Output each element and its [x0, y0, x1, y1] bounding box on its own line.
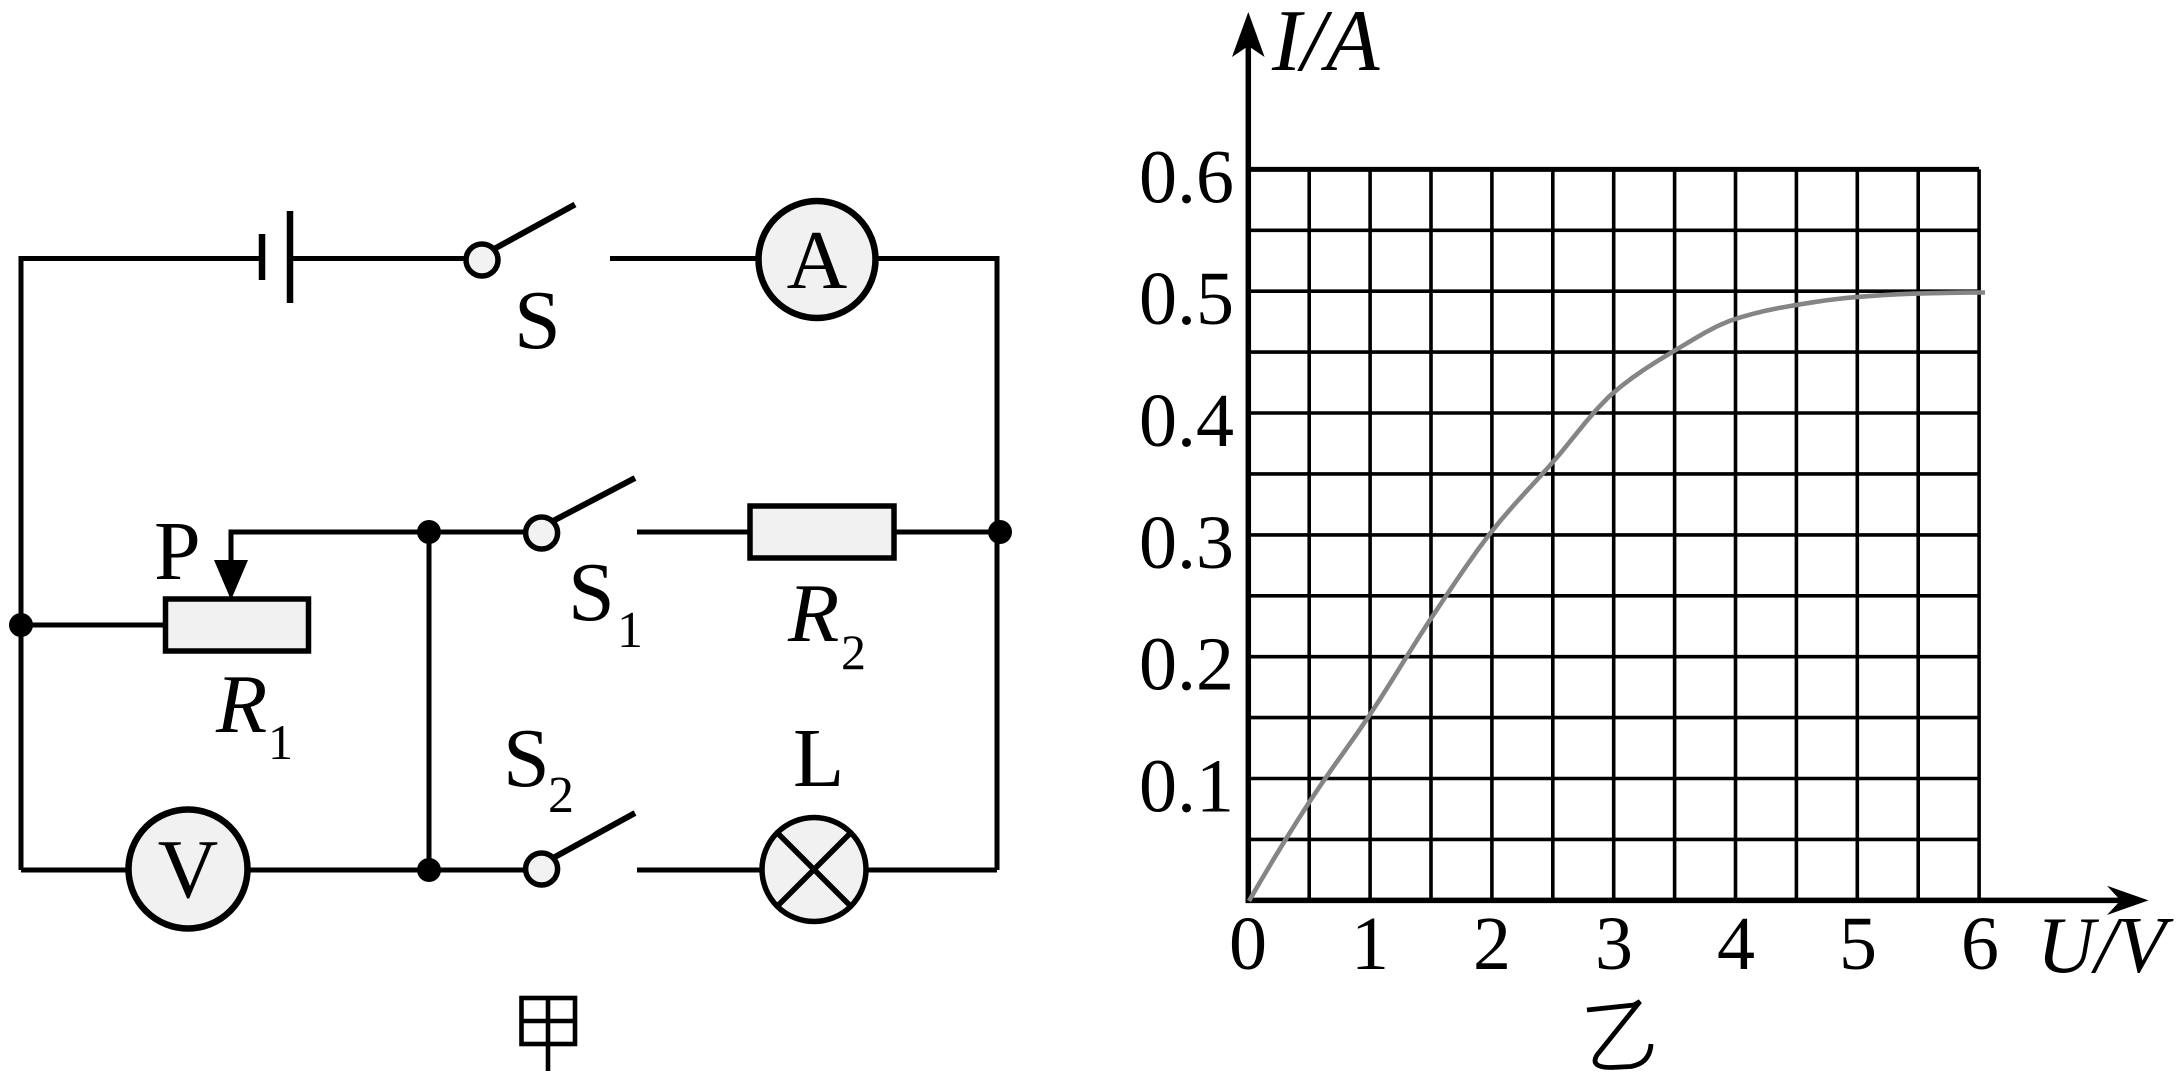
- switch S: [466, 205, 575, 277]
- node: right junction: [988, 520, 1012, 544]
- node: middle bottom junction: [417, 858, 441, 882]
- wire: resistor R2 to right junction: [894, 530, 997, 535]
- label S2: [503, 712, 574, 824]
- wire: junction to switch S1: [429, 530, 526, 535]
- x axis arrowhead: [2107, 886, 2149, 915]
- resistor R2 body: [750, 506, 894, 558]
- svg-text:R: R: [787, 567, 839, 660]
- svg-text:I/A: I/A: [1271, 0, 1381, 90]
- wire: switch S1 to resistor R2: [637, 530, 751, 535]
- y axis: [1246, 45, 1252, 903]
- battery: [262, 211, 290, 303]
- svg-text:S: S: [568, 546, 615, 639]
- x axis: [1246, 898, 2125, 904]
- svg-text:V: V: [158, 823, 219, 916]
- svg-text:L: L: [793, 712, 844, 805]
- wire: left wire to rheostat R1: [21, 623, 166, 628]
- I-U curve: [1249, 293, 1985, 902]
- lamp L: [762, 818, 866, 922]
- svg-text:A: A: [787, 214, 848, 307]
- svg-text:1: 1: [617, 602, 643, 659]
- svg-text:2: 2: [841, 624, 866, 680]
- svg-text:0.5: 0.5: [1139, 257, 1234, 341]
- svg-text:U/V: U/V: [2037, 902, 2174, 990]
- graph grid: [1248, 169, 1979, 900]
- wire: battery to switch S: [293, 256, 467, 261]
- node: middle top junction: [417, 520, 441, 544]
- wire: ammeter to top-right corner, down right side: [875, 259, 997, 871]
- wire: wiper to middle junction: [229, 530, 430, 535]
- svg-text:5: 5: [1839, 902, 1877, 986]
- switch S2: [526, 813, 635, 885]
- voltmeter V: [129, 810, 248, 929]
- svg-text:0.1: 0.1: [1139, 745, 1234, 829]
- label R1: [215, 658, 293, 770]
- rheostat R1 body: [166, 599, 309, 651]
- svg-text:S: S: [503, 712, 550, 805]
- caption 乙 (drawn glyph): [1587, 1002, 1651, 1068]
- wire: middle vertical: [427, 532, 432, 870]
- switch S1: [526, 478, 635, 549]
- svg-text:0.3: 0.3: [1139, 501, 1234, 585]
- svg-text:6: 6: [1961, 902, 1999, 986]
- svg-text:1: 1: [1351, 902, 1389, 986]
- wire: top from left corner to battery: [19, 256, 260, 261]
- ammeter A: [759, 201, 876, 318]
- graph grid top border: [1248, 167, 1979, 172]
- wire: voltmeter to switch S2: [247, 868, 526, 873]
- svg-text:3: 3: [1595, 902, 1633, 986]
- svg-text:0.6: 0.6: [1139, 135, 1234, 219]
- wire: switch S2 to lamp L: [637, 868, 763, 873]
- svg-text:2: 2: [548, 767, 574, 824]
- label S1: [568, 546, 643, 659]
- caption 甲 (drawn glyph): [522, 998, 576, 1071]
- wire: left vertical: [19, 259, 24, 871]
- svg-text:4: 4: [1717, 902, 1755, 986]
- svg-text:S: S: [514, 274, 561, 367]
- rheostat wiper P arrow: [214, 530, 248, 601]
- label R2: [787, 567, 866, 680]
- svg-text:0.2: 0.2: [1139, 623, 1234, 707]
- y axis arrowhead: [1232, 12, 1265, 57]
- svg-text:P: P: [154, 505, 201, 598]
- node: left junction: [9, 613, 33, 637]
- svg-text:0.4: 0.4: [1139, 379, 1234, 463]
- wire: lamp to bottom-right corner: [866, 868, 997, 873]
- svg-text:2: 2: [1473, 902, 1511, 986]
- svg-text:0: 0: [1229, 902, 1267, 986]
- svg-text:1: 1: [268, 714, 293, 770]
- wire: bottom left to voltmeter: [21, 868, 130, 873]
- wire: switch S to ammeter: [610, 256, 759, 261]
- svg-text:R: R: [215, 658, 267, 751]
